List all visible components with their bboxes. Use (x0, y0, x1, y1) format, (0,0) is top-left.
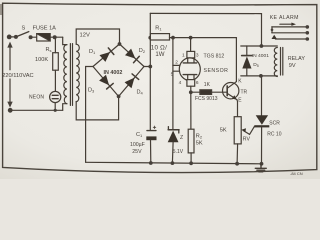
node sensor top lead (189, 36, 193, 40)
svg-text:S: S (22, 25, 26, 31)
svg-text:RV: RV (243, 136, 251, 142)
wire bridge right to C1 (144, 66, 150, 68)
svg-text:R2: R2 (196, 133, 203, 139)
node zener line (171, 36, 175, 40)
resistor R2 5K (188, 129, 194, 165)
bridge diamond wires (93, 44, 120, 67)
ground (255, 164, 266, 172)
svg-text:-84 CN: -84 CN (290, 171, 303, 176)
wire bridge left to ground rail (86, 67, 93, 163)
svg-text:4: 4 (179, 80, 182, 86)
svg-text:SCR: SCR (269, 121, 280, 127)
wire secondary top to bridge (76, 29, 119, 44)
svg-text:IN 4002: IN 4002 (104, 70, 123, 76)
wire pin2/pin5/zener line (172, 38, 174, 130)
svg-text:KE ALARM: KE ALARM (270, 15, 299, 21)
svg-text:R1: R1 (155, 26, 162, 32)
wire (31, 36, 37, 38)
svg-text:5K: 5K (196, 141, 203, 147)
svg-text:1: 1 (182, 52, 185, 58)
node fuse output (53, 35, 57, 39)
wire secondary bottom to bridge (76, 96, 118, 120)
wire (9, 36, 16, 38)
svg-text:Z: Z (180, 135, 183, 141)
wire R1 rail to collector (235, 38, 237, 82)
fuse F1 FUSE 1A (37, 34, 51, 41)
svg-text:1W: 1W (155, 51, 164, 58)
resistor 1K (191, 90, 228, 95)
svg-text:NEON: NEON (29, 94, 44, 100)
diode D4 (125, 74, 139, 88)
zener Z 5.1V (168, 127, 179, 165)
svg-text:D4: D4 (137, 89, 144, 95)
svg-text:Rs: Rs (46, 47, 52, 53)
potentiometer RV 5K (234, 117, 254, 166)
svg-text:100µF: 100µF (130, 142, 145, 148)
wire (50, 36, 63, 38)
diode D3 (99, 75, 113, 89)
relay coil RELAY 9V (274, 48, 283, 77)
AC source arrows 220/110VAC (7, 42, 12, 108)
relay contacts KE ALARM (271, 23, 309, 41)
SCR RC 10 (254, 76, 269, 166)
node sensor output (189, 90, 193, 94)
switch S (14, 35, 18, 39)
wire bottom left (10, 109, 63, 111)
wire primary top (63, 37, 67, 44)
wire bottom rail (86, 162, 262, 164)
svg-text:6: 6 (196, 80, 199, 86)
svg-text:FCS 9013: FCS 9013 (195, 96, 218, 102)
svg-text:100K: 100K (35, 57, 48, 63)
svg-text:RC 10: RC 10 (267, 132, 281, 138)
node AC terminal top (7, 35, 12, 40)
svg-text:220/110VAC: 220/110VAC (2, 73, 33, 79)
svg-text:D2: D2 (139, 48, 146, 54)
svg-text:9V: 9V (289, 63, 296, 69)
neon lamp (50, 91, 61, 112)
svg-text:SENSOR: SENSOR (204, 68, 229, 74)
svg-text:FUSE 1A: FUSE 1A (33, 25, 57, 31)
sensor TGS 812 (179, 38, 200, 93)
svg-text:2: 2 (175, 59, 178, 65)
transformer core (69, 44, 71, 106)
svg-text:TR: TR (241, 89, 248, 95)
wire pin 5 (173, 70, 180, 72)
svg-text:TGS 812: TGS 812 (204, 54, 225, 60)
resistor Rs 100K (53, 37, 59, 91)
wire to R2 (190, 92, 192, 129)
svg-text:D1: D1 (89, 49, 96, 55)
transistor TR FCS 9013 (223, 82, 239, 117)
svg-text:C1: C1 (136, 132, 143, 138)
svg-text:25V: 25V (132, 149, 142, 155)
svg-text:1K: 1K (204, 82, 211, 88)
resistor R1 10ohm 1W (148, 34, 236, 40)
transformer T1 primary (64, 45, 67, 104)
wire top rail (150, 13, 261, 46)
svg-text:3: 3 (196, 52, 199, 58)
svg-text:5K: 5K (220, 127, 227, 133)
svg-text:5: 5 (171, 72, 174, 78)
wire pin 2 (173, 64, 180, 66)
transformer T1 secondary (76, 44, 79, 101)
node AC terminal bottom (8, 108, 13, 113)
svg-text:5.1V: 5.1V (173, 149, 184, 155)
diode D5 IN 4001 with relay box (241, 44, 277, 78)
svg-text:D3: D3 (88, 87, 95, 93)
capacitor C1 100uF 25V (146, 126, 156, 165)
svg-text:12V: 12V (80, 33, 90, 39)
diode D2 (125, 49, 139, 63)
svg-text:RELAY: RELAY (288, 56, 306, 62)
svg-text:IN 4001: IN 4001 (252, 53, 269, 59)
diode D1 (100, 48, 114, 62)
